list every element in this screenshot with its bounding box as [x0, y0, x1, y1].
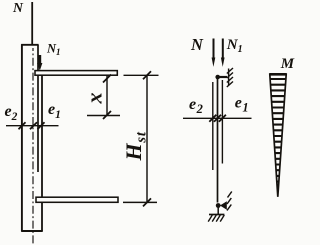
- column axis dash-dot centerline: [32, 48, 34, 244]
- bottom support restraint hatch: [228, 192, 232, 198]
- dimension line e2-e1 (left figure): [6, 125, 59, 127]
- top support wall: [228, 69, 230, 86]
- column top edge: [21, 44, 38, 46]
- top support hatch: [227, 68, 233, 74]
- ground line: [209, 214, 224, 216]
- slash arrow Hst bottom: [143, 198, 151, 206]
- column bottom edge: [21, 230, 43, 232]
- dimension x bottom reference line: [87, 115, 120, 117]
- moment diagram M top edge: [269, 73, 286, 76]
- force line N (left figure): [31, 2, 33, 45]
- svg-text:e1: e1: [48, 101, 61, 121]
- upper bracket beam: [35, 71, 117, 76]
- moment diagram M outline: [270, 74, 286, 197]
- slash arrow at N1 axis: [38, 122, 45, 129]
- slash arrow at left edge: [19, 122, 26, 129]
- svg-text:e1: e1: [235, 95, 249, 115]
- column axis line (scheme): [217, 79, 219, 203]
- svg-text:e2: e2: [189, 96, 203, 116]
- extension line at upper bracket (Hst top): [124, 74, 159, 76]
- moment diagram M hatch: [266, 79, 290, 193]
- svg-text:M: M: [280, 56, 295, 72]
- top support pin: [215, 75, 220, 80]
- bottom support horizontal restraint triangle: [220, 201, 227, 209]
- slash arrow at axis: [30, 122, 37, 129]
- dimension line e2-e1 (scheme): [183, 117, 252, 119]
- slash arrow at N1 line: [219, 115, 226, 122]
- slash arrow at axis: [214, 115, 221, 122]
- dimension line Hst: [146, 75, 148, 202]
- slash arrow x bottom: [103, 111, 111, 119]
- slash arrow Hst top: [143, 71, 151, 79]
- ground hatch: [208, 215, 212, 222]
- top support link: [218, 76, 227, 78]
- svg-text:N: N: [190, 35, 204, 54]
- N action line (scheme): [212, 82, 214, 170]
- bottom support link down: [217, 207, 219, 214]
- svg-text:Hst: Hst: [121, 131, 149, 161]
- svg-text:N1: N1: [46, 41, 61, 57]
- extension line at lower bracket (Hst bottom): [123, 201, 157, 203]
- N1 action line (scheme): [221, 80, 223, 164]
- column upper right edge / N1 action line: [37, 45, 39, 172]
- slash arrow at N line: [209, 115, 216, 122]
- force arrow N (scheme): [212, 39, 216, 67]
- svg-text:x: x: [82, 93, 107, 105]
- bottom support pin: [216, 203, 221, 208]
- svg-text:N1: N1: [226, 37, 243, 55]
- force arrow N1 (scheme): [221, 39, 225, 67]
- slash arrow x top: [103, 75, 111, 83]
- dimension x vertical line: [106, 75, 108, 116]
- load arrow N1 (left figure): [37, 55, 42, 71]
- lower bracket beam: [36, 197, 118, 202]
- svg-text:e2: e2: [5, 103, 18, 123]
- column lower right edge: [41, 71, 43, 231]
- svg-text:N: N: [12, 0, 24, 15]
- column left edge: [21, 44, 23, 231]
